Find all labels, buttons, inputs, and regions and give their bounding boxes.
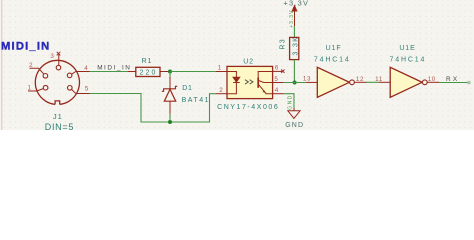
svg-text:D1: D1 [182,85,193,92]
J1 pin 4 stub [72,72,90,75]
U1E output pin lead [427,81,439,83]
U1F output bubble [350,80,355,85]
optocoupler U2 body [227,66,273,98]
U1F input pin lead [306,81,317,83]
svg-text:10: 10 [428,76,436,83]
wire R3 to junction C [293,60,295,83]
power +3.3V symbol [292,6,297,26]
U2 pin 2 lead [216,93,227,95]
wire U1F to U1E [367,81,379,83]
wire junction C to U1F input [283,82,306,84]
svg-text:5: 5 [274,76,278,83]
svg-text:U1E: U1E [399,45,415,52]
U1F output pin lead [354,81,366,83]
svg-text:3.3K: 3.3K [292,36,299,56]
svg-text:J1: J1 [53,112,63,121]
J1 pad pin2 [43,74,48,79]
U2 pin 6 stub [273,70,283,72]
svg-text:CNY17-4X006: CNY17-4X006 [217,104,279,111]
svg-text:U1F: U1F [326,45,342,52]
J1 pin 2 stub [30,68,44,74]
svg-text:12: 12 [356,76,364,83]
svg-text:5: 5 [85,85,89,92]
svg-text:MIDI_IN: MIDI_IN [97,65,131,72]
wire junction A to U2 pin1 [170,71,216,73]
svg-text:RX: RX [446,76,459,83]
svg-text:1: 1 [218,64,222,71]
sheet border [1,0,3,130]
svg-text:R3: R3 [280,38,287,50]
J1 pin 1 stub [28,89,44,92]
resistor R3 [290,37,299,59]
wire end square [467,81,470,84]
ground symbol [288,108,300,118]
svg-text:4: 4 [84,65,88,72]
diode D1 top lead [169,77,171,89]
J1 pad pin3 [56,65,61,70]
svg-text:3: 3 [50,53,54,60]
U2 light arrows [245,80,253,84]
no-connect X pin3 [57,52,61,56]
svg-text:74HC14: 74HC14 [314,57,351,64]
svg-text:2: 2 [29,62,33,69]
J1 pad pin5 [68,86,73,91]
svg-text:13: 13 [303,76,311,83]
U2 internal LED [227,72,240,94]
svg-text:+3.3V: +3.3V [283,0,309,8]
U1E input pin lead [379,81,391,83]
J1 pin 3 stub [58,53,60,65]
wire U1E output to RX [439,82,468,84]
U2 phototransistor [258,72,272,94]
svg-text:6: 6 [275,65,279,72]
wire D1 to bottom [169,114,171,123]
svg-text:11: 11 [375,76,383,83]
svg-text:2: 2 [219,87,223,94]
inverter U1F [317,67,349,97]
junction node B [168,120,172,124]
no-connect X pin6 [281,70,284,73]
svg-text:4: 4 [275,87,279,94]
svg-text:DIN=5: DIN=5 [45,122,74,130]
wire DIN pin5 to bottom rail [90,94,216,123]
wire junction A down to D1 [169,72,171,78]
svg-text:U2: U2 [243,59,254,66]
connector J1 body [35,60,79,104]
svg-text:220: 220 [140,70,158,77]
diode D1 bottom lead [169,101,171,113]
svg-text:1: 1 [27,85,31,92]
inverter U1E [390,67,422,97]
resistor R1 [136,67,160,76]
svg-text:+3.3V: +3.3V [289,10,295,28]
svg-text:GND: GND [287,94,293,110]
J1 pad pin4 [67,73,72,78]
wire +3.3V to R3 [293,26,295,37]
wire U2 pin4 to GND [283,94,294,108]
junction node A [168,70,172,74]
U2 pin 4 lead [273,93,283,95]
resistor R1 leads [128,71,136,73]
J1 pad pin1 [43,85,48,90]
diode D1 schottky cathode bar [162,86,177,91]
junction node C [293,81,297,85]
svg-text:74HC14: 74HC14 [390,57,427,64]
svg-text:MIDI_IN: MIDI_IN [1,41,50,53]
U1E output bubble [422,80,427,85]
wire pin4 to R1 [90,71,132,73]
U2 pin 1 lead [216,71,227,73]
svg-text:GND: GND [285,122,304,129]
diode D1 triangle [164,89,175,101]
J1 pin 5 stub [72,89,90,93]
svg-text:R1: R1 [142,58,153,65]
U2 pin 5 lead [273,82,283,84]
svg-text:BAT41: BAT41 [182,97,210,104]
